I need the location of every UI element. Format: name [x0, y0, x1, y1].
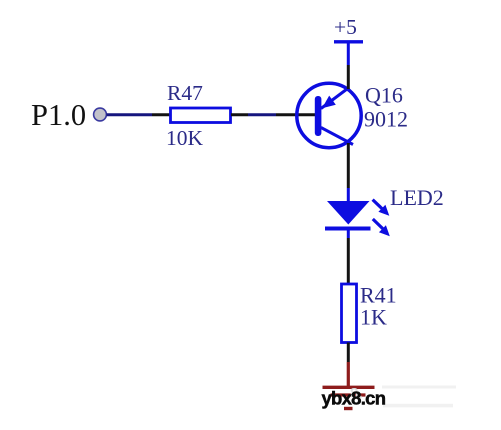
- wire: navy segment: [248, 113, 276, 116]
- terminal pad: [94, 108, 107, 121]
- LED LED2 cathode bar: [325, 227, 371, 231]
- svg-text:P1.0: P1.0: [31, 98, 86, 132]
- transistor Q16 emitter line: [321, 88, 349, 109]
- wire: R41 to ground: [347, 343, 350, 363]
- LED LED2 emission arrow 1: [373, 200, 390, 216]
- LED LED2 anode pin: [347, 188, 350, 203]
- svg-text:1K: 1K: [360, 304, 387, 329]
- ground bar 1: [323, 386, 375, 389]
- wire: black segment to R47: [152, 113, 170, 116]
- transistor Q16 body circle: [297, 83, 361, 147]
- svg-text:+5: +5: [334, 15, 357, 39]
- transistor Q16 emitter arrowhead (PNP, pointing to base): [322, 96, 336, 109]
- ground bar 3: [344, 407, 353, 410]
- ground stem: [347, 362, 350, 387]
- wire: terminal to R47 (navy pin segment): [107, 113, 153, 116]
- LED LED2 cathode pin stub: [347, 230, 350, 238]
- faint smudge streak 2: [383, 404, 453, 408]
- wire: R47 to transistor base: [231, 113, 248, 116]
- faint smudge streak 1: [382, 386, 456, 389]
- svg-text:10K: 10K: [166, 126, 204, 150]
- transistor Q16 collector line: [321, 128, 353, 145]
- svg-text:LED2: LED2: [390, 185, 444, 210]
- svg-text:Q16: Q16: [365, 82, 403, 107]
- LED LED2 triangle: [327, 201, 370, 225]
- wire: LED cathode to R41: [347, 238, 350, 284]
- svg-text:ybx8.cn: ybx8.cn: [322, 388, 387, 409]
- transistor Q16 base bar: [315, 96, 322, 136]
- resistor R47: [171, 108, 231, 123]
- wire: black into base bar: [276, 113, 317, 116]
- wire: transistor collector down: [347, 143, 350, 188]
- power +5 stem (blue pin): [347, 42, 350, 65]
- svg-text:R47: R47: [167, 81, 203, 105]
- svg-text:9012: 9012: [364, 107, 408, 132]
- wire: +5 to transistor emitter: [347, 65, 350, 89]
- LED LED2 emission arrow 2: [373, 219, 390, 236]
- power +5 rail bar: [334, 40, 363, 43]
- ground bar 2: [331, 393, 366, 396]
- resistor R41: [342, 284, 357, 343]
